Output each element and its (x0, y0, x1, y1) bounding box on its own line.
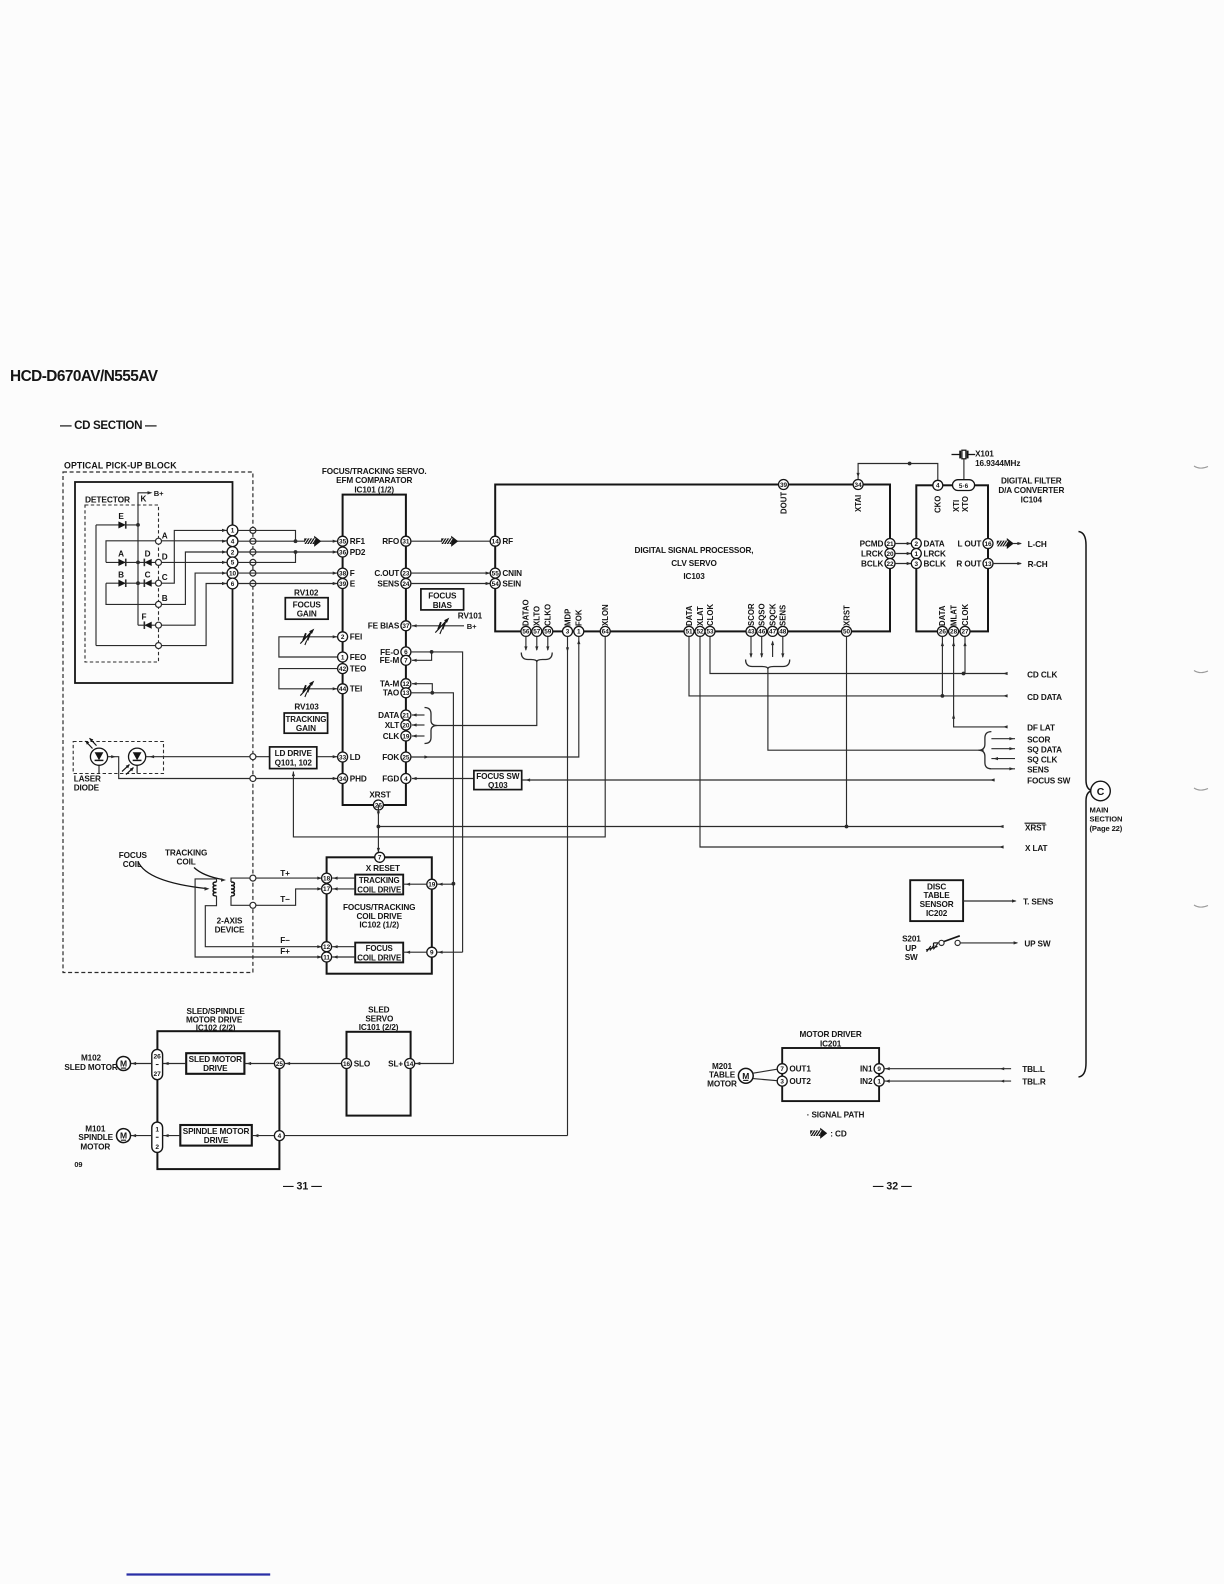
label A (node) (162, 531, 168, 540)
svg-text:LRCK: LRCK (861, 549, 883, 558)
node F (156, 622, 162, 628)
svg-text:22: 22 (886, 561, 894, 568)
arrow into pin 10 (222, 572, 227, 575)
pin 9 IN1 (IC201) (874, 1064, 884, 1074)
pin 57 XLTO (IC103) (532, 626, 542, 636)
optical pick-up block label (64, 461, 177, 471)
arrow CD CLK end (1003, 672, 1008, 675)
arrow into f-drive box (406, 951, 411, 954)
label COIL DRIVE (t) (357, 885, 401, 894)
svg-text:6: 6 (231, 581, 235, 588)
wire t-drive to pin17 (332, 888, 355, 890)
svg-text:CKO: CKO (934, 496, 943, 513)
svg-text:C: C (1097, 786, 1105, 798)
svg-text:1: 1 (231, 528, 235, 535)
label MAIN (1090, 805, 1109, 814)
svg-text:SQCK: SQCK (768, 603, 777, 626)
svg-text:RF: RF (502, 537, 513, 546)
arrow into pin 18 (333, 877, 338, 880)
node T+ on dashed edge (250, 875, 256, 881)
svg-text:BIAS: BIAS (433, 601, 453, 610)
margin mark 4 (1194, 905, 1208, 907)
trimmer RV101 (435, 618, 449, 634)
arrow SENS (1009, 767, 1014, 770)
svg-text:SENS: SENS (377, 579, 399, 588)
wire C.OUT to CNIN (411, 572, 490, 574)
label CKO (934, 496, 943, 513)
svg-text:42: 42 (339, 666, 347, 673)
label XRST (IC101) (369, 791, 390, 800)
svg-text:64: 64 (602, 629, 610, 636)
label GAIN (RV102) (297, 610, 317, 619)
wire pin19 tap (437, 883, 454, 885)
arrow on FOK wire (424, 755, 429, 758)
wire X RESET (377, 804, 379, 806)
arrow into pin 5 (222, 561, 227, 564)
svg-text:19: 19 (402, 733, 410, 740)
label 09 (74, 1160, 82, 1169)
arrow into pin 44 TEI (333, 687, 338, 690)
svg-text:2: 2 (915, 541, 919, 548)
wire A row (106, 541, 233, 563)
label XTI (952, 500, 961, 512)
label XLT (385, 721, 400, 730)
svg-text:: CD: : CD (830, 1130, 847, 1139)
svg-text:33: 33 (339, 754, 347, 761)
wire SQ DATA (991, 748, 1015, 750)
svg-text:F: F (142, 612, 147, 621)
svg-text:2: 2 (155, 1144, 159, 1151)
label DISC (927, 882, 946, 891)
label CLK (383, 732, 400, 741)
svg-text:SENS: SENS (1027, 766, 1049, 775)
arrow MDP down (566, 647, 569, 652)
label SENS (net) (1027, 766, 1049, 775)
wire L-CH (1013, 543, 1021, 545)
svg-text:TA-M: TA-M (380, 680, 400, 689)
pin 47 SQCK (IC103) (768, 626, 778, 636)
label XLTO (IC103) (533, 606, 542, 626)
label SLED/SPINDLE (187, 1007, 246, 1016)
arrow into pin 2 (907, 542, 912, 545)
label DIGITAL SIGNAL PROCESSOR, (635, 546, 754, 555)
pin 34 XTAI (IC103) (853, 480, 863, 490)
svg-text:LASER: LASER (74, 775, 101, 784)
arrow DF LAT end (1003, 725, 1008, 728)
pin 64 XLON (IC103) (600, 626, 610, 636)
wire PCMD to DATA (895, 543, 911, 545)
svg-text:TABLE: TABLE (924, 891, 951, 900)
pin 7 FE-M (IC101) (401, 655, 411, 665)
svg-text:SCOR: SCOR (747, 603, 756, 626)
svg-text:MAIN: MAIN (1090, 805, 1109, 814)
label D (node) (162, 553, 168, 562)
label DIODE (74, 784, 100, 793)
svg-text:DF LAT: DF LAT (1027, 724, 1055, 733)
svg-text:27: 27 (154, 1071, 162, 1078)
arrow into pin 21 DATA (412, 713, 417, 716)
focus coil (213, 882, 216, 896)
svg-text:MOTOR: MOTOR (707, 1080, 737, 1089)
monitor photodiode PD (122, 748, 146, 774)
detector label (85, 494, 130, 504)
svg-text:M101: M101 (85, 1124, 106, 1133)
arrow SQ DATA (1009, 747, 1014, 750)
label TABLE (M201) (709, 1071, 736, 1080)
label XRST (net) (1025, 823, 1047, 832)
label SERVO (365, 1014, 394, 1023)
svg-text:34: 34 (855, 482, 863, 489)
label RV103 (294, 703, 319, 712)
label XRST (IC103) (842, 605, 851, 626)
wire X LAT (700, 637, 1002, 848)
arrow into pin 3 (907, 562, 912, 565)
label F (diode) (142, 612, 147, 621)
arrow into pin 34 (333, 777, 338, 780)
arrow TBL.R (1000, 1080, 1004, 1083)
svg-text:54: 54 (492, 581, 500, 588)
wire under pin 547.8 (547, 637, 549, 651)
svg-text:46: 46 (758, 629, 766, 636)
svg-text:52: 52 (696, 629, 704, 636)
svg-text:FE-M: FE-M (380, 656, 400, 665)
svg-text:CD CLK: CD CLK (1027, 670, 1057, 679)
wire M201 OUT1 (753, 1069, 777, 1073)
svg-text:A: A (162, 531, 168, 540)
svg-text:48: 48 (779, 629, 787, 636)
svg-text:5·6: 5·6 (959, 483, 969, 490)
arrow into pin 27 (963, 642, 966, 647)
junction on clock wire (908, 462, 912, 466)
svg-text:DETECTOR: DETECTOR (85, 494, 130, 504)
label CLOK (IC103) (706, 604, 715, 626)
junction K/C (136, 581, 140, 585)
pin 20 XLT (IC101) (401, 720, 411, 730)
svg-text:5: 5 (231, 560, 235, 567)
svg-text:M: M (742, 1071, 749, 1081)
node D (156, 559, 162, 565)
wire M201 OUT2 (753, 1079, 777, 1081)
label C (diode) (145, 570, 151, 579)
pin 3 MDP (IC103) (563, 626, 573, 636)
wire F (238, 572, 337, 574)
junction RF1 (294, 539, 298, 543)
label XTO (961, 496, 970, 512)
photodiode C (144, 579, 151, 587)
arrow SQ CLK (993, 757, 998, 760)
pin 48 SENS (IC103) (778, 626, 788, 636)
label FOCUS (RV102) (293, 600, 322, 609)
wire pin5 jog (238, 552, 296, 562)
arrow into pin 9 (438, 951, 443, 954)
label LRCK (IC104) (924, 549, 946, 558)
label SQ DATA (1027, 745, 1062, 754)
svg-text:CLK: CLK (383, 732, 400, 741)
node common (156, 643, 162, 649)
wire B row (106, 552, 233, 604)
svg-text:CD DATA: CD DATA (1027, 693, 1062, 702)
svg-text:11: 11 (323, 954, 330, 961)
pin 21 DATA (IC101) (401, 710, 411, 720)
wire DATA stub (412, 714, 425, 716)
svg-text:C: C (162, 573, 168, 582)
margin mark 3 (1194, 788, 1208, 790)
pin 39 DOUT (IC103) (779, 480, 789, 490)
svg-text:FE BIAS: FE BIAS (368, 622, 400, 631)
label SQ CLK (1027, 755, 1057, 764)
label COIL (tracking) (177, 858, 196, 867)
svg-text:DATAO: DATAO (522, 599, 531, 626)
svg-text:TEI: TEI (350, 685, 362, 694)
node K label (141, 495, 147, 504)
arrow into LD DRIVE (292, 772, 295, 777)
svg-text:D: D (145, 550, 151, 559)
arrow into pin 1 IN2 (885, 1080, 890, 1083)
wire FE-M branch (412, 652, 432, 660)
arrow down 547.8 (546, 646, 549, 651)
wire SENS (net) (991, 768, 1015, 770)
svg-text:X RESET: X RESET (366, 864, 400, 873)
pin 54 SEIN (IC103) (490, 579, 500, 589)
wire tracking coil top to T+ (231, 878, 322, 882)
svg-text:SERVO: SERVO (365, 1014, 394, 1023)
arrow into pin 35 (333, 540, 338, 543)
label MLAT (IC104b) (949, 605, 958, 626)
label TABLE (924, 891, 951, 900)
svg-text:C.OUT: C.OUT (374, 569, 399, 578)
svg-text:13: 13 (402, 690, 410, 697)
pin 6 (pick-up) (227, 578, 238, 589)
label D (diode) (145, 550, 151, 559)
pin 42 TEO (IC101) (338, 664, 348, 674)
arrow UP SW (1014, 941, 1019, 944)
pin 38 F (IC101) (338, 568, 348, 578)
svg-text:DATA: DATA (924, 539, 945, 548)
svg-text:CLKO: CLKO (544, 604, 553, 626)
svg-text:BCLK: BCLK (924, 559, 946, 568)
svg-text:35: 35 (339, 539, 347, 546)
label IC104 (1021, 495, 1043, 504)
wire XRST down (377, 805, 379, 853)
arrow into pin 14 SL+ (416, 1062, 421, 1065)
pin 7 OUT1 (IC201) (777, 1064, 787, 1074)
svg-text:7: 7 (378, 855, 382, 862)
svg-text:14: 14 (406, 1061, 414, 1068)
FOCUS BIAS box (421, 589, 464, 610)
pin 52 XLAT (IC103) (695, 626, 705, 636)
wire R-CH (993, 563, 1021, 565)
svg-text:12: 12 (402, 681, 410, 688)
label FE BIAS (368, 622, 400, 631)
svg-text:— CD SECTION —: — CD SECTION — (60, 419, 157, 432)
arrow R-CH (1017, 562, 1022, 565)
pin 24 SENS (IC101) (401, 579, 411, 589)
svg-text:OPTICAL PICK-UP BLOCK: OPTICAL PICK-UP BLOCK (64, 461, 177, 471)
svg-text:59: 59 (544, 629, 552, 636)
svg-text:R-CH: R-CH (1028, 560, 1048, 569)
wire 1/2 to M101 (131, 1135, 152, 1137)
arrow into pin 1 FOK (577, 640, 580, 645)
pin 2 FEI (IC101) (338, 632, 348, 642)
label IC201 (820, 1039, 842, 1048)
svg-text:SW: SW (905, 953, 918, 962)
label B+ (detector) (154, 489, 164, 498)
CD path arrow (RFO) (441, 536, 458, 547)
wire under pin 525.9 (525, 637, 527, 651)
wire TAO (411, 693, 454, 1064)
arrow CD DATA end (1003, 694, 1008, 697)
label SQSO (IC103) (758, 603, 767, 626)
svg-text:9: 9 (877, 1066, 881, 1073)
svg-text:· SIGNAL PATH: · SIGNAL PATH (807, 1111, 865, 1120)
wire bottom common row (96, 584, 233, 646)
svg-text:SLED MOTOR: SLED MOTOR (64, 1063, 117, 1072)
trimmer RV102 box FOCUS GAIN (285, 598, 328, 620)
label LASER (74, 775, 101, 784)
label L OUT (957, 539, 981, 548)
motor M102 (117, 1057, 131, 1071)
label T. SENS (1023, 897, 1054, 906)
svg-text:36: 36 (339, 549, 347, 556)
label COIL DRIVE (f) (357, 953, 401, 962)
wire pin9 to f-drive (403, 951, 427, 953)
DSP IC103 box (495, 485, 890, 632)
svg-text:XTAI: XTAI (854, 495, 863, 512)
junction PD2 (294, 550, 298, 554)
wire LD DRIVE out (317, 756, 338, 758)
optical pick-up block dashed outline (63, 472, 253, 973)
svg-text:19: 19 (428, 882, 436, 889)
svg-text:XLON: XLON (601, 604, 610, 626)
svg-text:25: 25 (276, 1061, 284, 1068)
label A (diode) (118, 550, 124, 559)
label CNIN (502, 569, 522, 578)
svg-text:DRIVE: DRIVE (203, 1064, 228, 1073)
svg-text:M201: M201 (712, 1062, 733, 1071)
pin 16 SLO (IC101-2) (342, 1059, 352, 1069)
label SEIN (502, 579, 521, 588)
laser diode dashed box (73, 742, 163, 774)
wire SQ CLK (991, 758, 1015, 760)
pin 26 DATA (IC104) (937, 626, 947, 636)
wire spindle drive input (284, 1135, 567, 1137)
label IC102 (1/2) (359, 921, 399, 930)
label CD DATA (1027, 693, 1062, 702)
pin 12 (IC102) (322, 942, 332, 952)
svg-text:2: 2 (341, 634, 345, 641)
pin 13 TAO (IC101) (401, 688, 411, 698)
svg-text:DIODE: DIODE (74, 784, 100, 793)
wire pin26 tap (941, 637, 943, 696)
wire PD2 (238, 551, 337, 553)
label M101 (85, 1124, 106, 1133)
svg-text:RFO: RFO (382, 537, 400, 546)
svg-text:COIL DRIVE: COIL DRIVE (357, 885, 401, 894)
wire FGD (412, 778, 474, 780)
junction CD DATA/IC104 (941, 694, 945, 698)
svg-text:FOCUS SW: FOCUS SW (476, 772, 520, 781)
label MOTOR (M201) (707, 1080, 737, 1089)
arrow into pin 12 F- (317, 945, 322, 948)
arrow L-CH (1017, 542, 1022, 545)
photodiode A (118, 559, 125, 567)
node C (156, 580, 162, 586)
svg-text:16: 16 (343, 1061, 351, 1068)
svg-text:IN1: IN1 (860, 1065, 873, 1074)
arrow into pin 55 (486, 572, 491, 575)
label MOTOR (M101) (80, 1142, 110, 1151)
arrow into 1/2 (164, 1134, 169, 1137)
svg-text:L OUT: L OUT (957, 539, 981, 548)
pin 20 LRCK (IC103) (885, 549, 895, 559)
wire focus coil bottom to F- (205, 896, 321, 947)
svg-text:Q101, 102: Q101, 102 (275, 758, 313, 767)
label DATA (IC104) (924, 539, 945, 548)
arrow into pin 1 (907, 552, 912, 555)
svg-text:27: 27 (961, 629, 969, 636)
label FOCUS SW (net) (1027, 777, 1071, 786)
pin 4 (pick-up) (227, 536, 238, 547)
wire FOCUS SW (522, 779, 995, 781)
pin 33 LD (IC101) (338, 752, 348, 762)
label CLV SERVO (671, 559, 717, 568)
pin 25 FOK (IC101) (401, 752, 411, 762)
photodiode F (144, 621, 151, 629)
wire t-drive to pin18 (332, 877, 355, 879)
svg-text:X101: X101 (975, 450, 994, 459)
wire FEI loop (279, 637, 338, 657)
tracking coil (231, 882, 234, 896)
svg-text:C: C (145, 570, 151, 579)
arrow into pin 34 XTAI (857, 473, 860, 478)
node PHD on dashed edge (250, 776, 256, 782)
motor M201 (738, 1068, 753, 1083)
label LRCK (IC103) (861, 549, 883, 558)
pin 1 FOK (IC103) (574, 626, 584, 636)
svg-text:47: 47 (769, 629, 777, 636)
label BCLK (IC103) (861, 559, 883, 568)
brace DATAO/XLTO/CLKO (521, 653, 552, 663)
wire TEO loop (279, 669, 338, 689)
svg-text:PHD: PHD (350, 774, 367, 783)
wire E (238, 583, 337, 585)
arrow into pin 9 IN1 (885, 1067, 890, 1070)
svg-text:RV101: RV101 (458, 612, 483, 621)
svg-text:XRST: XRST (842, 605, 851, 626)
brace subcode expand (979, 732, 992, 769)
label E (118, 512, 124, 521)
svg-text:BCLK: BCLK (861, 559, 883, 568)
svg-text:SEIN: SEIN (502, 579, 521, 588)
arrow into FOCUS SW box (526, 778, 531, 781)
svg-text:XLT: XLT (385, 721, 400, 730)
svg-text:IC101 (1/2): IC101 (1/2) (354, 485, 394, 494)
wire TA-M branch (412, 684, 432, 693)
svg-text:T−: T− (280, 895, 290, 904)
wire FE BIAS (412, 625, 464, 627)
pin 1 LRCK (IC104) (911, 549, 921, 559)
label IC101 (1/2) (354, 485, 394, 494)
svg-text:24: 24 (402, 581, 410, 588)
svg-text:26: 26 (154, 1054, 162, 1061)
pin 14 SL+ (IC101-2) (405, 1059, 415, 1069)
svg-text:XRST: XRST (1025, 824, 1046, 833)
svg-text:57: 57 (533, 629, 541, 636)
wire under pin 536.8 (536, 637, 538, 651)
label FEO (350, 653, 367, 662)
pin 44 TEI (IC101) (338, 684, 348, 694)
junction TAO to pin19 (452, 882, 456, 886)
